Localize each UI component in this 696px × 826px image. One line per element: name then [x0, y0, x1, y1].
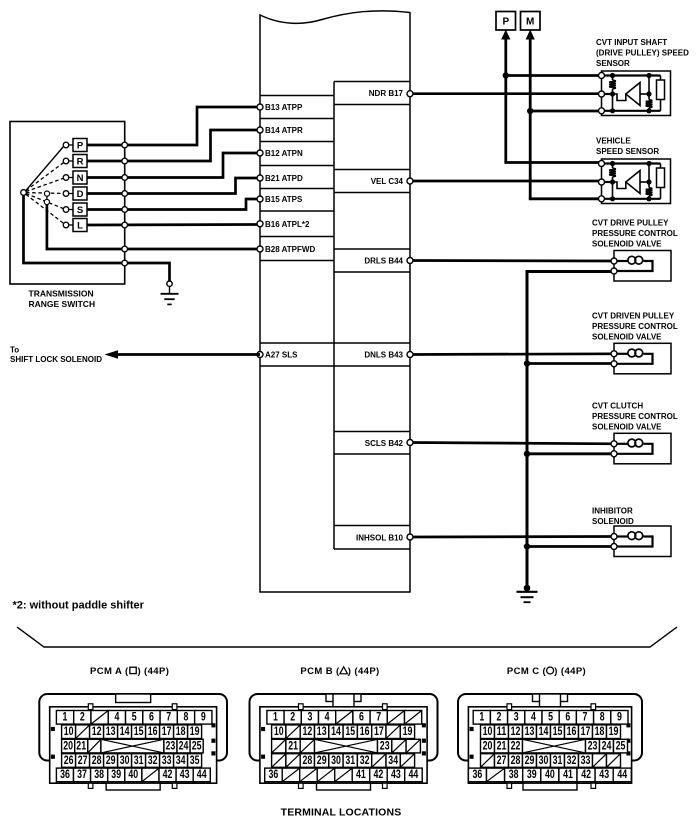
- svg-text:5: 5: [548, 710, 553, 724]
- svg-text:29: 29: [106, 753, 116, 767]
- svg-text:SOLENOID VALVE: SOLENOID VALVE: [592, 332, 662, 341]
- svg-text:15: 15: [553, 724, 563, 738]
- svg-text:27: 27: [497, 753, 507, 767]
- svg-text:B13 ATPP: B13 ATPP: [265, 103, 303, 112]
- svg-text:36: 36: [60, 767, 70, 781]
- svg-text:PRESSURE CONTROL: PRESSURE CONTROL: [592, 229, 678, 238]
- svg-text:SOLENOID VALVE: SOLENOID VALVE: [592, 422, 662, 431]
- svg-text:28: 28: [511, 753, 521, 767]
- svg-text:36: 36: [473, 767, 483, 781]
- svg-text:1: 1: [63, 710, 68, 724]
- svg-text:30: 30: [539, 753, 549, 767]
- svg-text:9: 9: [201, 710, 206, 724]
- svg-text:23: 23: [588, 738, 598, 752]
- svg-text:10: 10: [64, 724, 74, 738]
- svg-text:38: 38: [509, 767, 519, 781]
- svg-text:SOLENOID: SOLENOID: [592, 517, 634, 526]
- svg-text:SOLENOID VALVE: SOLENOID VALVE: [592, 239, 662, 248]
- svg-text:VEHICLE: VEHICLE: [596, 137, 631, 146]
- svg-text:44: 44: [197, 767, 207, 781]
- svg-text:16: 16: [567, 724, 577, 738]
- svg-text:CVT DRIVEN PULLEY: CVT DRIVEN PULLEY: [592, 312, 675, 321]
- svg-text:15: 15: [134, 724, 144, 738]
- svg-text:11: 11: [497, 724, 507, 738]
- svg-text:RANGE SWITCH: RANGE SWITCH: [29, 299, 96, 309]
- svg-text:S: S: [77, 205, 83, 216]
- svg-text:41: 41: [563, 767, 573, 781]
- svg-text:7: 7: [583, 710, 588, 724]
- svg-text:D: D: [77, 189, 84, 200]
- svg-text:29: 29: [317, 753, 327, 767]
- svg-text:7: 7: [376, 710, 381, 724]
- svg-text:14: 14: [120, 724, 130, 738]
- svg-text:16: 16: [148, 724, 158, 738]
- svg-text:30: 30: [331, 753, 341, 767]
- svg-text:38: 38: [94, 767, 104, 781]
- svg-text:SCLS B42: SCLS B42: [365, 439, 404, 448]
- svg-text:18: 18: [595, 724, 605, 738]
- svg-text:PCM B (: PCM B (: [300, 666, 340, 677]
- svg-text:43: 43: [599, 767, 609, 781]
- svg-text:B12 ATPN: B12 ATPN: [265, 149, 303, 158]
- svg-text:M: M: [526, 16, 534, 27]
- svg-text:P: P: [77, 140, 84, 151]
- svg-text:TERMINAL LOCATIONS: TERMINAL LOCATIONS: [281, 807, 402, 819]
- svg-text:27: 27: [78, 753, 88, 767]
- svg-text:23: 23: [166, 738, 176, 752]
- svg-text:28: 28: [92, 753, 102, 767]
- svg-text:42: 42: [581, 767, 591, 781]
- svg-text:8: 8: [184, 710, 189, 724]
- svg-text:36: 36: [269, 767, 279, 781]
- svg-text:3: 3: [514, 710, 519, 724]
- svg-text:19: 19: [403, 724, 413, 738]
- svg-text:8: 8: [600, 710, 605, 724]
- svg-text:37: 37: [77, 767, 87, 781]
- svg-text:13: 13: [525, 724, 535, 738]
- svg-text:B16 ATPL*2: B16 ATPL*2: [265, 220, 310, 229]
- svg-text:CVT CLUTCH: CVT CLUTCH: [592, 402, 643, 411]
- svg-text:P: P: [502, 16, 509, 27]
- svg-text:5: 5: [132, 710, 137, 724]
- svg-text:44: 44: [409, 767, 419, 781]
- svg-text:24: 24: [179, 738, 189, 752]
- svg-text:4: 4: [325, 710, 330, 724]
- svg-text:30: 30: [120, 753, 130, 767]
- svg-text:9: 9: [617, 710, 622, 724]
- svg-text:B14 ATPR: B14 ATPR: [265, 126, 303, 135]
- svg-text:35: 35: [190, 753, 200, 767]
- svg-text:4: 4: [114, 710, 119, 724]
- svg-text:DNLS B43: DNLS B43: [364, 351, 403, 360]
- svg-text:15: 15: [345, 724, 355, 738]
- svg-text:17: 17: [374, 724, 384, 738]
- svg-text:2: 2: [290, 710, 295, 724]
- svg-text:26: 26: [64, 753, 74, 767]
- svg-text:PRESSURE CONTROL: PRESSURE CONTROL: [592, 412, 678, 421]
- svg-text:B28 ATPFWD: B28 ATPFWD: [265, 245, 315, 254]
- svg-text:7: 7: [166, 710, 171, 724]
- svg-text:4: 4: [531, 710, 536, 724]
- svg-text:PCM A (: PCM A (: [90, 666, 129, 677]
- svg-text:32: 32: [567, 753, 577, 767]
- svg-text:25: 25: [616, 738, 626, 752]
- svg-text:43: 43: [391, 767, 401, 781]
- svg-text:A27 SLS: A27 SLS: [265, 351, 298, 360]
- svg-text:INHIBITOR: INHIBITOR: [592, 507, 633, 516]
- svg-text:R: R: [77, 156, 84, 167]
- svg-text:12: 12: [303, 724, 313, 738]
- svg-text:32: 32: [360, 753, 370, 767]
- svg-text:) (44P): ) (44P): [137, 666, 169, 677]
- svg-text:25: 25: [192, 738, 202, 752]
- svg-text:14: 14: [539, 724, 549, 738]
- svg-text:17: 17: [162, 724, 172, 738]
- svg-text:20: 20: [483, 738, 493, 752]
- svg-text:PCM C (: PCM C (: [507, 666, 547, 677]
- svg-text:12: 12: [511, 724, 521, 738]
- svg-text:CVT DRIVE PULLEY: CVT DRIVE PULLEY: [592, 219, 669, 228]
- svg-text:19: 19: [609, 724, 619, 738]
- svg-text:22: 22: [511, 738, 521, 752]
- svg-text:18: 18: [176, 724, 186, 738]
- svg-text:10: 10: [483, 724, 493, 738]
- svg-text:N: N: [77, 173, 84, 184]
- svg-text:21: 21: [497, 738, 507, 752]
- svg-text:TRANSMISSION: TRANSMISSION: [29, 289, 94, 299]
- svg-text:13: 13: [106, 724, 116, 738]
- svg-text:39: 39: [111, 767, 121, 781]
- svg-text:29: 29: [525, 753, 535, 767]
- svg-text:VEL C34: VEL C34: [371, 177, 404, 186]
- svg-text:16: 16: [360, 724, 370, 738]
- svg-text:19: 19: [190, 724, 200, 738]
- svg-text:6: 6: [565, 710, 570, 724]
- svg-text:B15 ATPS: B15 ATPS: [265, 195, 303, 204]
- svg-text:L: L: [77, 220, 83, 231]
- svg-text:SHIFT LOCK SOLENOID: SHIFT LOCK SOLENOID: [10, 355, 102, 364]
- svg-text:32: 32: [148, 753, 158, 767]
- svg-text:10: 10: [274, 724, 284, 738]
- svg-text:31: 31: [345, 753, 355, 767]
- svg-text:3: 3: [307, 710, 312, 724]
- svg-text:1: 1: [273, 710, 278, 724]
- svg-text:14: 14: [331, 724, 341, 738]
- svg-text:CVT INPUT SHAFT: CVT INPUT SHAFT: [596, 38, 667, 47]
- svg-text:1: 1: [479, 710, 484, 724]
- svg-text:12: 12: [92, 724, 102, 738]
- svg-text:) (44P): ) (44P): [348, 666, 380, 677]
- svg-text:NDR B17: NDR B17: [369, 89, 404, 98]
- svg-text:44: 44: [617, 767, 627, 781]
- svg-text:34: 34: [176, 753, 186, 767]
- svg-text:17: 17: [581, 724, 591, 738]
- svg-text:34: 34: [388, 753, 398, 767]
- svg-text:6: 6: [359, 710, 364, 724]
- svg-text:31: 31: [553, 753, 563, 767]
- svg-text:DRLS B44: DRLS B44: [364, 257, 403, 266]
- svg-text:(DRIVE PULLEY) SPEED: (DRIVE PULLEY) SPEED: [596, 48, 689, 57]
- svg-text:40: 40: [128, 767, 138, 781]
- svg-text:24: 24: [602, 738, 612, 752]
- svg-text:) (44P): ) (44P): [554, 666, 586, 677]
- svg-text:2: 2: [497, 710, 502, 724]
- svg-text:40: 40: [545, 767, 555, 781]
- svg-text:PRESSURE CONTROL: PRESSURE CONTROL: [592, 322, 678, 331]
- svg-text:To: To: [10, 346, 19, 355]
- svg-text:6: 6: [149, 710, 154, 724]
- svg-text:33: 33: [581, 753, 591, 767]
- svg-text:39: 39: [527, 767, 537, 781]
- svg-text:42: 42: [374, 767, 384, 781]
- svg-text:28: 28: [303, 753, 313, 767]
- svg-text:41: 41: [356, 767, 366, 781]
- svg-text:21: 21: [76, 738, 86, 752]
- svg-text:20: 20: [63, 738, 73, 752]
- svg-text:31: 31: [134, 753, 144, 767]
- svg-text:SENSOR: SENSOR: [596, 59, 630, 68]
- svg-text:*2: without paddle shifter: *2: without paddle shifter: [13, 600, 145, 612]
- svg-text:42: 42: [163, 767, 173, 781]
- svg-text:21: 21: [288, 738, 298, 752]
- svg-text:SPEED SENSOR: SPEED SENSOR: [596, 147, 659, 156]
- svg-text:INHSOL B10: INHSOL B10: [356, 533, 404, 542]
- svg-text:33: 33: [162, 753, 172, 767]
- svg-text:23: 23: [380, 738, 390, 752]
- svg-text:43: 43: [180, 767, 190, 781]
- svg-text:B21 ATPD: B21 ATPD: [265, 174, 303, 183]
- svg-text:13: 13: [317, 724, 327, 738]
- svg-text:2: 2: [80, 710, 85, 724]
